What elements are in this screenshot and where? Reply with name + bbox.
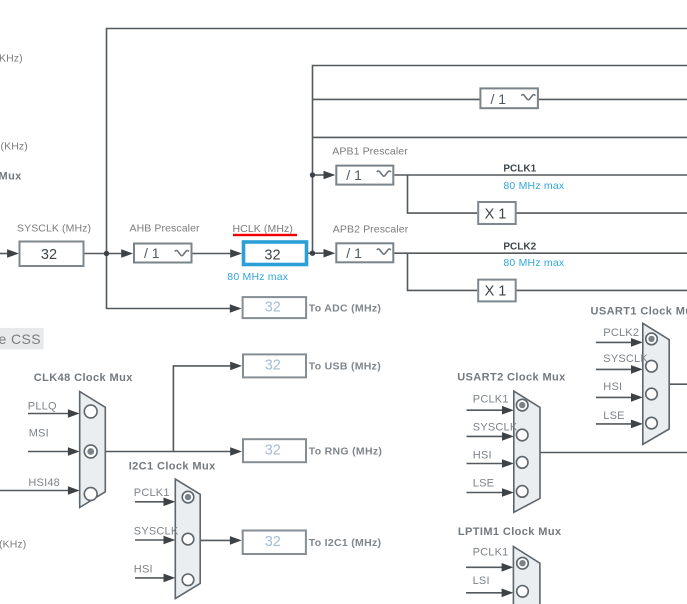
svg-text:I2C1 Clock Mux: I2C1 Clock Mux <box>129 461 216 473</box>
svg-text:80 MHz max: 80 MHz max <box>227 271 288 283</box>
arrowhead SYSCLK into USART2 mux <box>502 432 514 441</box>
svg-text:X 1: X 1 <box>485 206 507 222</box>
CLK48 clock mux body <box>80 392 106 508</box>
arrowhead into To USB box <box>230 362 242 371</box>
USART1 radio SYSCLK <box>646 360 658 372</box>
wire: APB1 X1 branch <box>408 175 478 213</box>
svg-text:APB1 Prescaler: APB1 Prescaler <box>332 146 408 158</box>
wire: HSI input to USART1 mux <box>596 396 632 398</box>
arrowhead LSE into USART1 mux <box>631 420 643 429</box>
arrowhead PCLK1 into I2C1 mux <box>164 498 176 507</box>
X1 multiplier box (APB1 timers) <box>478 202 516 224</box>
USART2 clock mux body <box>514 391 540 512</box>
To USB box <box>243 354 306 377</box>
svg-text:32: 32 <box>264 248 280 264</box>
wire: USART2 mux output row <box>540 452 687 454</box>
arrowhead into APB1 prescaler <box>324 171 336 180</box>
CLK48 radio HSI48 <box>84 488 97 501</box>
wire: branch up to USB box <box>173 366 230 452</box>
red underline under HCLK label <box>233 234 297 236</box>
wire: top rail from SYSCLK riser to right edge <box>107 29 687 310</box>
svg-text:HCLK (MHz): HCLK (MHz) <box>233 223 294 235</box>
arrowhead HSI into USART2 mux <box>502 459 514 468</box>
svg-text:To I2C1 (MHz): To I2C1 (MHz) <box>309 537 382 549</box>
USART1 clock mux body <box>643 323 669 444</box>
svg-text:LSI: LSI <box>473 575 490 587</box>
wire: APB1 out / PCLK1 row <box>394 174 687 176</box>
wire: LSI input to LPTIM1 mux <box>466 592 503 594</box>
svg-text:(KHz): (KHz) <box>1 141 28 153</box>
junction at SYSCLK riser <box>104 251 109 256</box>
arrowhead into APB2 prescaler <box>324 249 336 258</box>
wire: PCLK1 input to USART2 mux <box>467 409 504 411</box>
I2C1 radio HSI <box>182 574 194 586</box>
wire: SYSCLK box to AHB prescaler <box>84 253 123 255</box>
svg-text:PCLK1: PCLK1 <box>473 394 509 406</box>
svg-text:AHB Prescaler: AHB Prescaler <box>130 223 201 235</box>
arrowhead HSI48 into CLK48 mux <box>68 486 80 495</box>
junction at HCLK output <box>310 251 315 256</box>
svg-text:To USB (MHz): To USB (MHz) <box>309 361 381 373</box>
svg-text:APB2 Prescaler: APB2 Prescaler <box>333 224 409 236</box>
wire: riser to ADC box <box>107 308 231 310</box>
svg-text:PCLK1: PCLK1 <box>134 487 170 499</box>
svg-text:32: 32 <box>265 534 281 550</box>
top /1 dropdown <box>480 88 538 108</box>
svg-text:MSI: MSI <box>29 428 49 440</box>
LPTIM1 radio LSI <box>517 586 529 598</box>
svg-text:HSI: HSI <box>473 449 492 461</box>
wire: LSE input to USART2 mux <box>467 492 504 494</box>
wire: APB2 X1 branch <box>408 253 478 290</box>
SYSCLK value box <box>20 242 84 267</box>
svg-text:CLK48 Clock Mux: CLK48 Clock Mux <box>34 372 133 384</box>
junction at APB1 tap <box>310 172 315 177</box>
arrowhead MSI into CLK48 mux <box>68 447 80 456</box>
Enable CSS chip (clipped at left edge) <box>0 328 44 349</box>
arrowhead into HCLK box <box>230 249 242 258</box>
arrowhead into To RNG box <box>230 447 242 456</box>
arrowhead SYSCLK into I2C1 mux <box>164 536 176 545</box>
svg-text:80 MHz max: 80 MHz max <box>503 257 564 269</box>
wire: AHB prescaler to HCLK box <box>193 253 232 255</box>
arrowhead into AHB prescaler <box>121 249 133 258</box>
APB1 prescaler dropdown <box>336 166 393 185</box>
wire: X1 out row (timers APB1) <box>517 212 687 214</box>
wire: HSI48 input from left edge to CLK48 mux <box>0 490 69 492</box>
svg-text:Mux: Mux <box>0 171 22 183</box>
wire: HCLK box to APB2 prescaler <box>308 252 325 254</box>
svg-text:LSE: LSE <box>473 477 494 489</box>
wire: third rail to right edge <box>313 136 687 138</box>
svg-text:80 MHz max: 80 MHz max <box>503 180 564 192</box>
HCLK value box (highlighted) <box>244 242 307 265</box>
svg-text:PCLK1: PCLK1 <box>503 164 536 175</box>
svg-text:LPTIM1 Clock Mux: LPTIM1 Clock Mux <box>458 526 562 538</box>
arrowhead PCLK1 into USART2 mux <box>502 406 514 415</box>
boxes <box>0 88 538 554</box>
arrowhead HSI into USART1 mux <box>631 393 643 402</box>
I2C1 radio PCLK1 (selected) <box>182 491 194 503</box>
svg-text:/ 1: / 1 <box>491 91 507 107</box>
wire: APB2 out / PCLK2 row <box>394 252 687 254</box>
wire: APB1 prescaler input stub <box>313 174 325 176</box>
svg-text:/ 1: / 1 <box>346 167 362 183</box>
svg-text:X 1: X 1 <box>485 284 507 300</box>
USART2 radio HSI <box>516 457 528 469</box>
wire: MSI input to CLK48 mux <box>28 451 69 453</box>
USART2 radio LSE <box>516 486 528 498</box>
svg-text:SYSCLK: SYSCLK <box>134 525 179 537</box>
svg-text:LSE: LSE <box>603 410 624 422</box>
muxes <box>80 323 670 604</box>
To RNG box <box>243 439 306 462</box>
svg-text:KHz): KHz) <box>0 53 23 65</box>
svg-text:32: 32 <box>265 358 281 374</box>
USART1 radio LSE <box>646 417 658 429</box>
svg-text:e CSS: e CSS <box>0 331 41 347</box>
I2C1 clock mux body <box>175 479 200 598</box>
svg-text:32: 32 <box>265 299 281 315</box>
wire: HCLK riser rail x=312.5 <box>313 66 687 254</box>
svg-text:To RNG (MHz): To RNG (MHz) <box>309 445 382 457</box>
wire: MCO row through /1 dropdown <box>313 98 687 100</box>
wire: USART1 mux output <box>669 383 687 385</box>
USART2 radio SYSCLK <box>516 429 528 441</box>
svg-text:HSI: HSI <box>134 563 153 575</box>
arrowhead into To I2C1 box <box>230 536 242 545</box>
wire: HSI input to I2C1 mux <box>135 577 165 579</box>
svg-text:PCLK1: PCLK1 <box>473 547 509 559</box>
wire: PLLQ input to CLK48 mux <box>28 413 69 415</box>
svg-text:To ADC (MHz): To ADC (MHz) <box>309 303 381 315</box>
arrowhead PLLQ into CLK48 mux <box>68 409 80 418</box>
svg-text:/ 1: / 1 <box>346 245 362 261</box>
arrowhead LSE into USART2 mux <box>502 488 514 497</box>
selected radio dots <box>87 448 94 455</box>
svg-text:32: 32 <box>265 442 281 458</box>
wire: LSE input to USART1 mux <box>596 423 632 425</box>
wire: SYSCLK input to USART2 mux <box>467 435 504 437</box>
svg-text:SYSCLK (MHz): SYSCLK (MHz) <box>17 223 91 235</box>
svg-text:HSI48: HSI48 <box>28 477 60 489</box>
To I2C1 box <box>243 531 306 555</box>
arrowhead PCLK2 into USART1 mux <box>631 338 643 347</box>
To ADC box <box>243 297 307 318</box>
wire: HSI input to USART2 mux <box>467 463 504 465</box>
arrowhead LSI into LPTIM1 mux <box>502 589 514 598</box>
wire: X1 out row (timers APB2) <box>517 289 687 291</box>
wire: I2C1 mux output to I2C1 box <box>200 539 230 541</box>
wire: PCLK2 input to USART1 mux <box>596 341 632 343</box>
svg-text:PCLK2: PCLK2 <box>603 327 639 339</box>
CLK48 radio MSI (selected) <box>84 445 97 458</box>
svg-text:PLLQ: PLLQ <box>28 401 57 413</box>
svg-text:USART2 Clock Mux: USART2 Clock Mux <box>457 372 566 384</box>
CLK48 radio PLLQ <box>84 405 97 418</box>
svg-text:/ 1: / 1 <box>144 245 160 261</box>
I2C1 radio SYSCLK <box>182 533 194 545</box>
AHB prescaler dropdown <box>134 244 192 263</box>
svg-text:SYSCLK: SYSCLK <box>603 353 648 365</box>
svg-text:32: 32 <box>41 247 57 263</box>
wire: PCLK1 input to LPTIM1 mux <box>466 566 503 568</box>
arrowhead into SYSCLK box <box>7 249 19 258</box>
arrowhead SYSCLK into USART1 mux <box>631 365 643 374</box>
USART1 radio PCLK2 (selected) <box>646 333 658 345</box>
APB2 prescaler dropdown <box>336 243 393 262</box>
LPTIM1 radio PCLK1 (selected) <box>517 557 529 569</box>
svg-text:HSI: HSI <box>603 381 622 393</box>
svg-text:SYSCLK: SYSCLK <box>473 422 518 434</box>
arrowhead into To ADC box <box>230 304 242 313</box>
arrowhead HSI into I2C1 mux <box>164 574 176 583</box>
svg-text:(KHz): (KHz) <box>0 539 26 551</box>
wire: SYSCLK input to USART1 mux <box>596 368 632 370</box>
USART1 radio HSI <box>646 388 658 400</box>
USART2 radio PCLK1 (selected) <box>516 399 528 411</box>
svg-text:PCLK2: PCLK2 <box>503 241 536 252</box>
wire: CLK48 mux output to RNG <box>105 451 230 453</box>
wire: SYSCLK input to I2C1 mux <box>135 539 165 541</box>
wire: PCLK1 input to I2C1 mux <box>135 501 165 503</box>
svg-text:USART1 Clock Mux: USART1 Clock Mux <box>591 306 687 318</box>
LPTIM1 clock mux body (clipped at bottom) <box>513 547 540 604</box>
wire: SYSCLK input from left edge <box>0 253 8 255</box>
arrowhead PCLK1 into LPTIM1 mux <box>502 563 514 572</box>
X1 multiplier box (APB2 timers) <box>478 280 516 302</box>
